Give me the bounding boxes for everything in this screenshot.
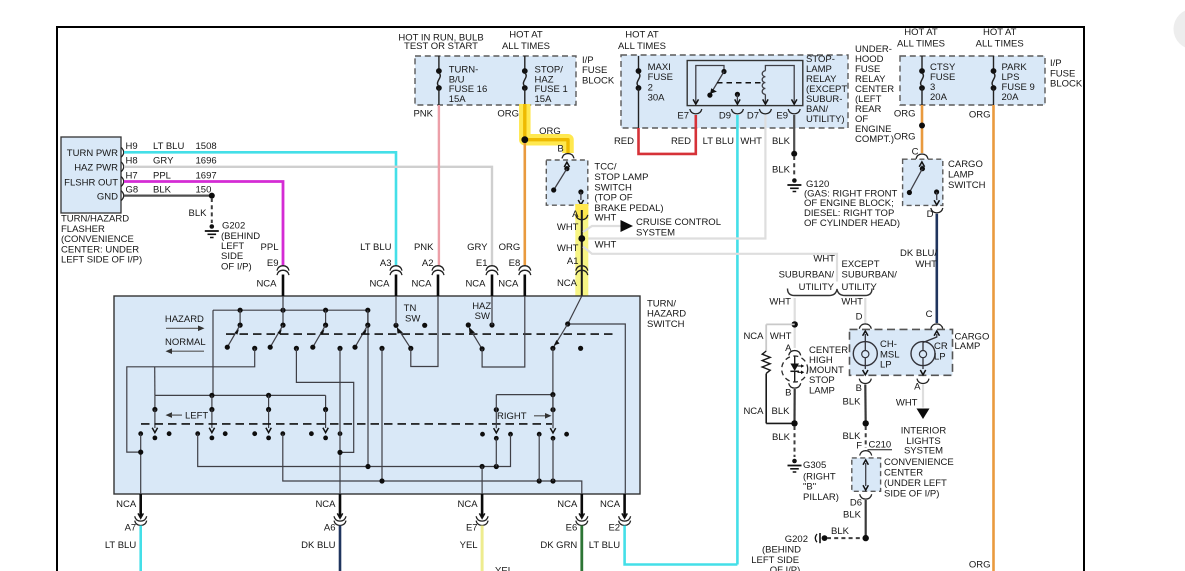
svg-text:YEL: YEL — [460, 540, 478, 551]
wire 382 stationary column — [381, 348, 383, 481]
TCC switch pin A contact — [578, 189, 583, 194]
svg-text:C210: C210 — [869, 440, 892, 451]
left pole at 154.9 — [154, 395, 156, 409]
label LEFT arrow — [166, 412, 173, 418]
A1 column down to right bus — [552, 348, 554, 409]
relay switch contact — [696, 66, 724, 105]
svg-text:HOT AT: HOT AT — [904, 27, 938, 38]
svg-text:UTILITY: UTILITY — [799, 282, 835, 293]
connector E6 at switch bottom — [580, 494, 583, 518]
wire LT BLU A7 down — [139, 526, 142, 571]
svg-text:SYSTEM: SYSTEM — [904, 446, 943, 457]
svg-text:OF I/P): OF I/P) — [770, 565, 801, 571]
svg-text:(UNDER LEFT: (UNDER LEFT — [884, 478, 947, 489]
svg-text:CARGO: CARGO — [948, 159, 983, 170]
wire PNK fuse16 to A2 — [438, 105, 440, 266]
svg-text:WHT: WHT — [557, 243, 579, 254]
svg-text:SUBURBAN/: SUBURBAN/ — [842, 270, 898, 281]
wire E1 to HAZ contact — [491, 296, 493, 325]
svg-text:OF I/P): OF I/P) — [221, 261, 252, 272]
svg-text:SUBURBAN/: SUBURBAN/ — [779, 270, 835, 281]
turn/hazard switch S3 box — [114, 296, 640, 494]
svg-text:FLSHR OUT: FLSHR OUT — [64, 177, 118, 188]
svg-text:A1: A1 — [567, 256, 579, 267]
svg-text:STOP LAMP: STOP LAMP — [594, 172, 648, 183]
stationary contact at 340 — [337, 346, 342, 351]
svg-text:SW: SW — [405, 313, 420, 324]
svg-text:LP: LP — [934, 351, 946, 362]
wire BLK convenience center D6 to ground G202 — [865, 500, 867, 538]
fuse PARK LPS FUSE 9 20A — [993, 56, 995, 71]
connector A3 at switch top — [395, 275, 398, 297]
svg-text:BLOCK: BLOCK — [1050, 79, 1083, 90]
svg-text:BLK: BLK — [772, 406, 791, 417]
svg-text:DK BLU/: DK BLU/ — [900, 248, 937, 259]
left pole at 211.9 — [211, 395, 213, 409]
underhood fuse relay center box — [621, 55, 848, 128]
ground G305 — [792, 459, 797, 464]
svg-text:BLK: BLK — [843, 509, 862, 520]
svg-text:ORG: ORG — [499, 242, 521, 253]
svg-text:E8: E8 — [509, 258, 521, 269]
convenience center box — [852, 458, 881, 491]
svg-text:NCA: NCA — [256, 278, 277, 289]
svg-text:D: D — [856, 312, 863, 323]
wire ORG splice to E8 — [523, 143, 526, 266]
svg-text:HOT AT: HOT AT — [625, 29, 659, 40]
cargo lamp assembly box — [859, 324, 871, 329]
stationary contact at 254.7 — [252, 346, 257, 351]
svg-text:PNK: PNK — [413, 108, 433, 119]
wire bus left end down to left section — [212, 310, 214, 395]
svg-text:TURN PWR: TURN PWR — [67, 148, 118, 159]
stationary contact dot 169.1 — [167, 431, 172, 436]
svg-text:PPL: PPL — [261, 242, 279, 253]
svg-text:H7: H7 — [126, 170, 138, 181]
svg-text:LEFT: LEFT — [185, 410, 208, 421]
wire RED maxi fuse to relay E7 — [639, 115, 696, 154]
svg-text:UTILITY: UTILITY — [842, 282, 878, 293]
svg-text:WHT: WHT — [896, 398, 918, 409]
stationary contact at 382 — [379, 346, 384, 351]
connector E2 at switch bottom — [623, 494, 626, 518]
svg-text:G305: G305 — [803, 460, 826, 471]
hazard contact at 325.6 — [323, 308, 328, 313]
svg-text:EXCEPT: EXCEPT — [842, 259, 880, 270]
wire A7 column — [140, 434, 142, 494]
svg-text:A7: A7 — [125, 522, 137, 533]
svg-text:SYSTEM: SYSTEM — [636, 227, 675, 238]
svg-text:CRUISE CONTROL: CRUISE CONTROL — [636, 217, 721, 228]
wire GRY 1696 H8 to E1 — [124, 167, 492, 266]
svg-text:CR: CR — [934, 341, 948, 352]
svg-text:A2: A2 — [422, 258, 434, 269]
svg-text:HAZ PWR: HAZ PWR — [74, 163, 118, 174]
svg-text:BLK: BLK — [772, 136, 791, 147]
svg-text:PPL: PPL — [153, 170, 171, 181]
svg-text:E1: E1 — [476, 258, 488, 269]
svg-text:PNK: PNK — [414, 242, 434, 253]
svg-text:D7: D7 — [747, 111, 759, 122]
svg-text:NCA: NCA — [557, 278, 578, 289]
HAZ SW contact — [466, 322, 471, 327]
svg-text:LT BLU: LT BLU — [703, 136, 734, 147]
svg-text:DK BLU: DK BLU — [301, 540, 335, 551]
highlight band WHT TCC A to turn/hazard switch A1 — [575, 204, 588, 302]
connector A2 at switch top — [437, 275, 440, 297]
svg-text:LP: LP — [880, 360, 892, 371]
svg-text:LEFT SIDE OF I/P): LEFT SIDE OF I/P) — [61, 255, 142, 266]
svg-text:RED: RED — [614, 136, 634, 147]
lower bus y481 — [283, 434, 582, 494]
svg-text:GND: GND — [97, 191, 118, 202]
I/P fuse block (left) — [415, 56, 576, 105]
svg-text:D9: D9 — [719, 111, 731, 122]
relay K1 stop lamp relay box — [687, 61, 803, 106]
svg-text:G202: G202 — [785, 534, 808, 545]
svg-text:MSL: MSL — [880, 349, 900, 360]
svg-text:WHT: WHT — [841, 297, 863, 308]
svg-text:NCA: NCA — [557, 499, 578, 510]
stationary contact dot 510.5 — [508, 432, 513, 437]
right pole at 496.3 — [494, 407, 499, 412]
svg-text:GRY: GRY — [153, 156, 174, 167]
hazard feed bus — [213, 309, 368, 311]
svg-text:A: A — [914, 381, 921, 392]
svg-text:NCA: NCA — [743, 406, 764, 417]
svg-text:SW: SW — [475, 311, 490, 322]
left section bus — [155, 394, 326, 396]
svg-text:F: F — [856, 440, 862, 451]
svg-text:A: A — [572, 209, 579, 220]
highlight band ORG fuse1 to TCC switch B — [525, 104, 568, 153]
svg-text:ORG: ORG — [539, 126, 561, 137]
junction WHT at CHMSL — [792, 321, 798, 327]
brace suburban/utility split — [788, 289, 873, 296]
wire DK GRN E6 down — [580, 526, 583, 571]
svg-text:(BEHIND: (BEHIND — [762, 544, 801, 555]
wire LT BLU relay D9 down to E2 joint — [736, 115, 739, 565]
svg-text:ALL TIMES: ALL TIMES — [618, 41, 666, 52]
svg-text:BLK: BLK — [843, 397, 862, 408]
dashed hazard/normal travel line — [226, 333, 614, 335]
interior lights system arrow — [917, 409, 930, 420]
stationary contact dot 140.7 — [138, 431, 143, 436]
svg-text:A: A — [785, 343, 792, 354]
stationary contact dot 225.2 — [223, 431, 228, 436]
svg-text:HAZARD: HAZARD — [165, 314, 204, 325]
svg-text:CENTER: CENTER — [884, 468, 923, 479]
svg-text:SWITCH: SWITCH — [948, 180, 986, 191]
svg-text:WHT: WHT — [595, 212, 617, 223]
dashed left/right travel line — [141, 423, 552, 425]
wire BLK cargo lamp B to C210 — [864, 385, 867, 424]
svg-text:D: D — [927, 209, 934, 220]
svg-text:E9: E9 — [776, 111, 788, 122]
svg-text:1696: 1696 — [196, 156, 217, 167]
hazard contact at 240.1 — [238, 308, 243, 313]
svg-text:1508: 1508 — [196, 141, 217, 152]
svg-text:30A: 30A — [648, 93, 666, 104]
wire bus right end down to lower bus — [367, 310, 369, 466]
svg-text:E7: E7 — [466, 522, 478, 533]
svg-text:BLK: BLK — [153, 184, 172, 195]
svg-text:WHT: WHT — [770, 331, 792, 342]
svg-text:E6: E6 — [566, 522, 578, 533]
svg-text:NCA: NCA — [465, 278, 486, 289]
relay coil — [762, 71, 765, 95]
wire 296.4 stationary jog down — [296, 348, 353, 452]
wire LT BLU 1508 H9 to A3 — [124, 152, 396, 266]
connector A1 at switch top — [576, 266, 588, 271]
wire BLK 150 G8 to ground G202 — [124, 195, 212, 197]
svg-text:ALL TIMES: ALL TIMES — [897, 38, 945, 49]
svg-text:LT BLU: LT BLU — [360, 242, 391, 253]
svg-text:WHT: WHT — [769, 297, 791, 308]
cruise control system arrow — [621, 220, 634, 232]
connector E9 at switch top — [282, 275, 285, 297]
svg-text:H8: H8 — [126, 156, 138, 167]
wire WHT cargo lamp A to interior lights system — [922, 385, 924, 408]
svg-text:ORG: ORG — [894, 108, 916, 119]
svg-text:WHT: WHT — [595, 239, 617, 250]
svg-text:20A: 20A — [1002, 92, 1020, 103]
stationary contact dot 340 — [338, 431, 343, 436]
I/P fuse block (right) — [900, 56, 1045, 105]
lamp CR LP — [934, 331, 939, 336]
wire WHT right branch to cargo lamp D — [864, 298, 866, 323]
svg-text:E9: E9 — [267, 258, 279, 269]
switch S2 cargo lamp switch — [916, 154, 928, 159]
svg-text:20A: 20A — [930, 92, 948, 103]
turn/hazard flasher U1 box — [61, 137, 121, 213]
svg-text:B: B — [856, 383, 862, 394]
svg-text:SIDE OF I/P): SIDE OF I/P) — [884, 489, 939, 500]
svg-text:B: B — [785, 388, 791, 399]
stationary contact at 296.4 — [294, 346, 299, 351]
wire 254.7 stationary to left bus — [127, 348, 255, 452]
wire WHT stub to cruise control system — [583, 226, 622, 232]
svg-text:NCA: NCA — [315, 499, 336, 510]
connector E7 at switch bottom — [481, 494, 484, 518]
NCA resistor bypass loop — [766, 323, 795, 325]
svg-text:BLOCK: BLOCK — [582, 75, 615, 86]
svg-text:WHT: WHT — [557, 222, 579, 233]
right pole at 553 — [550, 407, 555, 412]
svg-text:NCA: NCA — [411, 278, 432, 289]
svg-text:G8: G8 — [126, 184, 139, 195]
wire E9 to bus — [282, 296, 284, 310]
wire DK BLU A6 down — [339, 526, 342, 571]
stationary contact dot 254.7 — [252, 431, 257, 436]
right section bus — [496, 394, 553, 396]
svg-text:NCA: NCA — [458, 499, 479, 510]
A1 contact and feed to E2 — [568, 296, 626, 494]
svg-text:15A: 15A — [535, 94, 553, 105]
svg-text:LT BLU: LT BLU — [589, 540, 620, 551]
svg-text:A6: A6 — [324, 522, 336, 533]
svg-text:RED: RED — [671, 136, 691, 147]
svg-text:HOT AT: HOT AT — [509, 29, 543, 40]
hazard contact at 283 — [280, 308, 285, 313]
wire PPL 1697 H7 to E9 — [124, 182, 283, 267]
svg-text:A3: A3 — [380, 258, 392, 269]
fuse TURN-B/U FUSE 16 15A — [438, 56, 440, 71]
svg-text:YEL: YEL — [495, 566, 513, 571]
svg-text:LAMP: LAMP — [948, 170, 974, 181]
lamp CH-MSL LP — [863, 331, 868, 336]
svg-text:(TOP OF: (TOP OF — [594, 193, 632, 204]
svg-text:HOT AT: HOT AT — [983, 27, 1017, 38]
svg-text:LT BLU: LT BLU — [105, 540, 136, 551]
lamp E4 center high mount stop lamp (LED) — [789, 351, 801, 356]
svg-text:B: B — [557, 143, 563, 154]
svg-text:ORG: ORG — [969, 559, 991, 570]
svg-text:LAMP: LAMP — [955, 341, 981, 352]
svg-text:BLK: BLK — [831, 526, 850, 537]
fuse MAXI FUSE 2 30A — [638, 56, 640, 71]
svg-text:ORG: ORG — [497, 108, 519, 119]
ui scroll button circle top-right — [1174, 9, 1185, 50]
svg-text:CONVENIENCE: CONVENIENCE — [884, 457, 954, 468]
svg-text:ORG: ORG — [969, 109, 991, 120]
connector E1 at switch top — [491, 275, 494, 297]
junction splice ORG — [521, 136, 528, 143]
wire ORG park lps fuse down (to parking lamps) — [992, 105, 995, 571]
svg-text:UTILITY): UTILITY) — [806, 114, 845, 125]
connector A7 at switch bottom — [139, 494, 142, 518]
svg-text:WHT: WHT — [915, 259, 937, 270]
svg-text:CH-: CH- — [880, 339, 897, 350]
svg-text:NCA: NCA — [498, 278, 519, 289]
wire A6 column — [339, 348, 341, 494]
TCC stop lamp switch S1 — [562, 154, 574, 159]
wire BLK CHMSL B to G305 — [793, 389, 795, 423]
fuse CTSY FUSE 3 20A — [921, 56, 923, 71]
ground G120 — [792, 178, 797, 183]
svg-text:ORG: ORG — [894, 132, 916, 143]
hazard contact at 367.8 — [365, 308, 370, 313]
svg-text:RIGHT: RIGHT — [497, 411, 527, 422]
connector A6 at switch bottom — [339, 494, 342, 518]
svg-text:NCA: NCA — [743, 331, 764, 342]
svg-text:150: 150 — [196, 184, 212, 195]
svg-text:OF CYLINDER HEAD): OF CYLINDER HEAD) — [804, 218, 900, 229]
svg-text:BLK: BLK — [772, 164, 791, 175]
svg-text:NCA: NCA — [369, 278, 390, 289]
stationary contact dot 482.5 — [480, 432, 485, 437]
svg-text:NORMAL: NORMAL — [165, 337, 206, 348]
svg-text:NCA: NCA — [116, 499, 137, 510]
svg-text:LT BLU: LT BLU — [153, 141, 184, 152]
wire E7 column — [481, 467, 483, 495]
svg-text:1697: 1697 — [196, 170, 217, 181]
svg-text:TCC/: TCC/ — [594, 162, 617, 173]
svg-text:E2: E2 — [608, 522, 620, 533]
stationary contact dot 539.2 — [537, 432, 542, 437]
wire WHT to suburban/utility brace — [583, 247, 837, 282]
connector E8 at switch top — [523, 275, 526, 297]
stationary contact dot 197.7 — [195, 431, 200, 436]
svg-text:GRY: GRY — [467, 242, 488, 253]
stationary contact dot 311.4 — [309, 431, 314, 436]
left pole at 268.6 — [268, 395, 270, 409]
svg-text:COMPT.): COMPT.) — [855, 134, 894, 145]
ground G202 (left) — [210, 224, 215, 229]
svg-text:D6: D6 — [850, 498, 862, 509]
svg-text:LAMP: LAMP — [809, 385, 835, 396]
svg-text:WHT: WHT — [740, 136, 762, 147]
svg-text:ALL TIMES: ALL TIMES — [976, 38, 1024, 49]
junction WHT on A1 band — [578, 235, 585, 242]
wire YEL E7 down — [481, 526, 484, 571]
svg-text:NCA: NCA — [600, 499, 621, 510]
wire WHT left branch to CHMSL — [794, 298, 796, 348]
svg-text:H9: H9 — [126, 141, 138, 152]
stationary contact dot 282.8 — [280, 431, 285, 436]
stationary contact dot 566.6 — [564, 432, 569, 437]
wire A3 to TN contact — [395, 296, 397, 325]
lower bus y466 — [198, 434, 511, 467]
svg-text:SWITCH: SWITCH — [594, 182, 632, 193]
svg-text:15A: 15A — [449, 94, 467, 105]
wire ORG ctsy fuse to cargo lamp switch C — [921, 105, 924, 153]
wire DK BLU/WHT cargo switch D to cargo lamp C — [935, 214, 938, 323]
TN SW contact — [393, 323, 398, 328]
relay armature dashed link — [717, 82, 762, 84]
wire LT BLU E2 joins relay D9 wire — [625, 526, 738, 565]
svg-text:WHT: WHT — [813, 254, 835, 265]
svg-text:SWITCH: SWITCH — [647, 319, 685, 330]
svg-text:C: C — [926, 309, 933, 320]
svg-text:ALL TIMES: ALL TIMES — [502, 41, 550, 52]
svg-text:BLK: BLK — [772, 432, 791, 443]
relay pin D9 stub — [735, 92, 740, 97]
svg-text:INTERIOR: INTERIOR — [901, 426, 947, 437]
svg-text:E7: E7 — [677, 111, 689, 122]
svg-text:BLK: BLK — [189, 208, 208, 219]
svg-text:PILLAR): PILLAR) — [803, 492, 839, 503]
left pole at 325.6 — [325, 395, 327, 409]
wire BLK relay E9 to ground G120 — [793, 115, 795, 154]
svg-text:DK GRN: DK GRN — [540, 540, 577, 551]
svg-text:TEST OR START: TEST OR START — [404, 41, 478, 52]
fuse STOP/HAZ FUSE 1 15A — [524, 56, 526, 71]
wire WHT relay D7 to cruise junction — [584, 115, 765, 239]
